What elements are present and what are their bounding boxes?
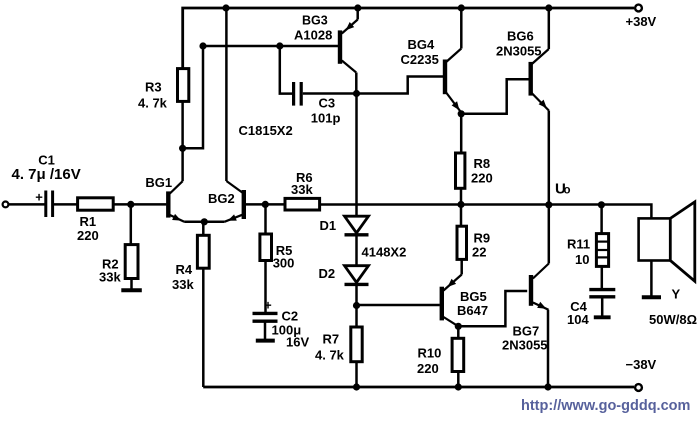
transistor BG4 <box>401 37 462 112</box>
svg-text:R8: R8 <box>474 156 491 171</box>
wire R1 to node <box>113 203 131 206</box>
wire R8 to Uo rail <box>460 188 463 204</box>
svg-text:4. 7μ /16V: 4. 7μ /16V <box>12 166 81 183</box>
wire R4 to bottom rail <box>202 268 205 387</box>
wire C2 to ground <box>264 321 267 339</box>
svg-text:220: 220 <box>77 228 99 243</box>
wire C4 to ground <box>601 297 604 316</box>
wire BG1 collector to R3 <box>181 101 184 148</box>
svg-text:−38V: −38V <box>626 357 657 372</box>
wire D1 to D2 <box>355 235 358 266</box>
resistor R7 <box>315 327 362 363</box>
wire BG6 emitter to Uo rail <box>548 111 551 205</box>
node emitter junction <box>201 218 208 225</box>
svg-text:101p: 101p <box>311 110 341 125</box>
wire Uo rail to R11 <box>600 205 603 234</box>
node junction top rail / BG4 collector <box>458 4 465 11</box>
node junction top rail / BG6 collector <box>545 4 552 11</box>
wire C3 left <box>280 46 292 94</box>
resistor R8 <box>456 153 493 188</box>
wire node to BG1 base <box>131 203 167 206</box>
node junction bottom rail / R7 <box>353 383 360 390</box>
node Uo rail / R8 R9 <box>457 201 464 208</box>
svg-text:BG5: BG5 <box>460 289 487 304</box>
svg-text:4148X2: 4148X2 <box>362 245 407 260</box>
svg-text:o: o <box>564 185 571 197</box>
svg-text:+38V: +38V <box>626 14 657 29</box>
svg-text:BG4: BG4 <box>408 37 436 52</box>
wire D2 to node <box>355 284 358 305</box>
resistor R5 <box>260 234 295 271</box>
wire BG7 emitter to bottom rail <box>547 310 550 387</box>
wire R10 to bottom rail <box>457 372 460 388</box>
node BG1 base junction <box>127 201 134 208</box>
wire node to R5 <box>264 204 267 234</box>
node Uo rail / R11 <box>598 201 605 208</box>
wire BG7 collector to Uo rail <box>548 205 551 264</box>
wire junction to R10 <box>457 326 460 338</box>
label Uo <box>555 181 571 198</box>
resistor R10 <box>417 338 464 376</box>
node BG2 base junction <box>262 201 269 208</box>
diode D1 <box>320 216 369 235</box>
node BG5 emitter junction <box>455 323 462 330</box>
ground under C4 <box>594 315 611 319</box>
wire -38V bottom rail <box>203 386 634 389</box>
wire emitter junction to R4 <box>202 222 205 236</box>
svg-text:22: 22 <box>472 245 486 260</box>
terminal input <box>3 202 9 208</box>
wire node to R7 <box>355 306 358 328</box>
wire R6 to speaker (Uo rail) <box>320 205 652 219</box>
svg-text:50W/8Ω: 50W/8Ω <box>649 312 697 327</box>
transistor BG6 <box>496 29 549 111</box>
resistor R11 <box>567 234 609 267</box>
svg-text:A1028: A1028 <box>294 28 332 43</box>
label C1815X2 <box>239 123 293 138</box>
wire junction to BG3 base riser <box>183 46 203 148</box>
wire junction to R8 <box>460 114 463 153</box>
resistor R4 <box>172 235 209 292</box>
wire to BG3 base <box>203 45 338 48</box>
svg-text:C3: C3 <box>319 96 336 111</box>
svg-text:220: 220 <box>417 361 439 376</box>
svg-text:C1815X2: C1815X2 <box>239 123 293 138</box>
node junction top rail / BG2 collector <box>222 4 229 11</box>
svg-text:2N3055: 2N3055 <box>496 44 542 59</box>
svg-text:R1: R1 <box>80 214 97 229</box>
capacitor C4 <box>567 290 615 328</box>
svg-text:http://www.go-gddq.com: http://www.go-gddq.com <box>521 398 690 414</box>
svg-text:B647: B647 <box>457 303 488 318</box>
transistor BG2 <box>208 181 244 222</box>
wire BG3 collector down <box>355 73 358 94</box>
svg-text:33k: 33k <box>99 270 121 285</box>
wire BG4 emitter to BG6 base <box>461 79 529 114</box>
node junction bottom rail / BG7 emitter <box>544 383 551 390</box>
svg-text:C2: C2 <box>282 309 299 324</box>
wire R11 to C4 <box>601 266 604 288</box>
wire BG3 collector to D1 <box>355 94 358 217</box>
svg-text:R10: R10 <box>418 345 442 360</box>
label 4148X2 <box>362 245 407 260</box>
svg-text:+: + <box>264 299 271 313</box>
wire R7 to bottom rail <box>355 362 358 387</box>
speaker Y <box>639 202 697 327</box>
resistor R9 <box>457 226 490 259</box>
wire BG1 collector up <box>181 148 184 181</box>
terminal -38V <box>626 357 657 391</box>
svg-text:2N3055: 2N3055 <box>502 338 548 353</box>
svg-text:BG3: BG3 <box>302 13 328 27</box>
wire R9 to BG5 collector <box>460 259 463 274</box>
svg-text:D2: D2 <box>319 266 336 281</box>
ground under C2 <box>256 339 275 343</box>
wire node to BG5 base <box>357 304 440 307</box>
svg-text:104: 104 <box>567 312 589 327</box>
node BG5 base junction <box>353 302 360 309</box>
wire BG3 collector to BG4 base <box>357 77 444 94</box>
transistor BG3 <box>294 13 358 72</box>
svg-text:R3: R3 <box>145 80 162 95</box>
svg-text:Y: Y <box>672 286 681 301</box>
node BG3 collector junction <box>353 90 360 97</box>
node junction bottom rail / R10 <box>455 383 462 390</box>
capacitor C2 <box>253 299 310 350</box>
wire node to R6 <box>265 203 285 206</box>
svg-text:R4: R4 <box>176 262 193 277</box>
svg-text:R11: R11 <box>567 236 590 251</box>
wire BG1 emitter to BG2 emitter <box>184 221 224 224</box>
capacitor C3 <box>294 82 341 125</box>
wire R2 to ground <box>130 279 133 289</box>
svg-text:220: 220 <box>471 170 493 185</box>
diode D2 <box>319 266 369 285</box>
wire node to R2 <box>130 204 133 244</box>
node riser top junction <box>199 42 206 49</box>
svg-text:R7: R7 <box>323 332 340 347</box>
node BG1 collector junction <box>179 145 186 152</box>
wire R5 to C2 <box>264 261 267 313</box>
svg-text:33k: 33k <box>172 277 194 292</box>
transistor BG5 <box>442 275 488 327</box>
node Uo rail / BG6 BG7 <box>545 201 552 208</box>
wire BG3 emitter to rail <box>356 8 359 20</box>
node BG4 emitter junction <box>458 110 465 117</box>
svg-text:BG7: BG7 <box>513 324 540 339</box>
wire BG2 collector to top rail <box>225 8 228 181</box>
node junction top rail / BG3 emitter <box>354 4 361 11</box>
svg-text:BG1: BG1 <box>145 175 172 190</box>
transistor BG7 <box>502 264 549 353</box>
terminal +38V <box>626 5 657 29</box>
svg-text:R9: R9 <box>474 230 491 245</box>
wire BG6 collector to rail <box>548 8 551 49</box>
svg-text:C2235: C2235 <box>401 52 439 67</box>
wire BG2 base to node <box>246 203 265 206</box>
ground under speaker <box>642 295 661 299</box>
resistor R6 <box>285 170 320 210</box>
wire +38V top rail <box>183 8 634 69</box>
svg-text:D1: D1 <box>320 218 337 233</box>
svg-text:33k: 33k <box>291 182 313 197</box>
svg-text:16V: 16V <box>286 335 309 350</box>
svg-text:4. 7k: 4. 7k <box>138 96 168 111</box>
svg-text:300: 300 <box>273 256 295 271</box>
resistor R2 <box>99 245 138 285</box>
svg-text:4. 7k: 4. 7k <box>315 348 345 363</box>
resistor R1 <box>77 198 113 243</box>
svg-text:+: + <box>35 190 43 205</box>
capacitor C1 <box>12 152 81 217</box>
wire BG5 to BG7 base <box>458 291 527 326</box>
resistor R3 <box>138 69 189 111</box>
node C3 left junction <box>276 42 283 49</box>
wire speaker to ground <box>650 261 653 296</box>
wire BG4 collector to rail <box>460 8 463 49</box>
svg-text:10: 10 <box>575 252 589 267</box>
svg-text:BG2: BG2 <box>208 191 235 206</box>
ground under R2 <box>121 288 142 292</box>
watermark go-gddq <box>521 398 690 414</box>
wire C3 right to junction <box>303 92 355 95</box>
wire Uo rail to R9 <box>460 205 463 227</box>
svg-text:BG6: BG6 <box>507 29 534 44</box>
wire input to C1 <box>8 203 44 206</box>
transistor BG1 <box>145 175 184 222</box>
wire C1 to R1 <box>54 203 78 206</box>
